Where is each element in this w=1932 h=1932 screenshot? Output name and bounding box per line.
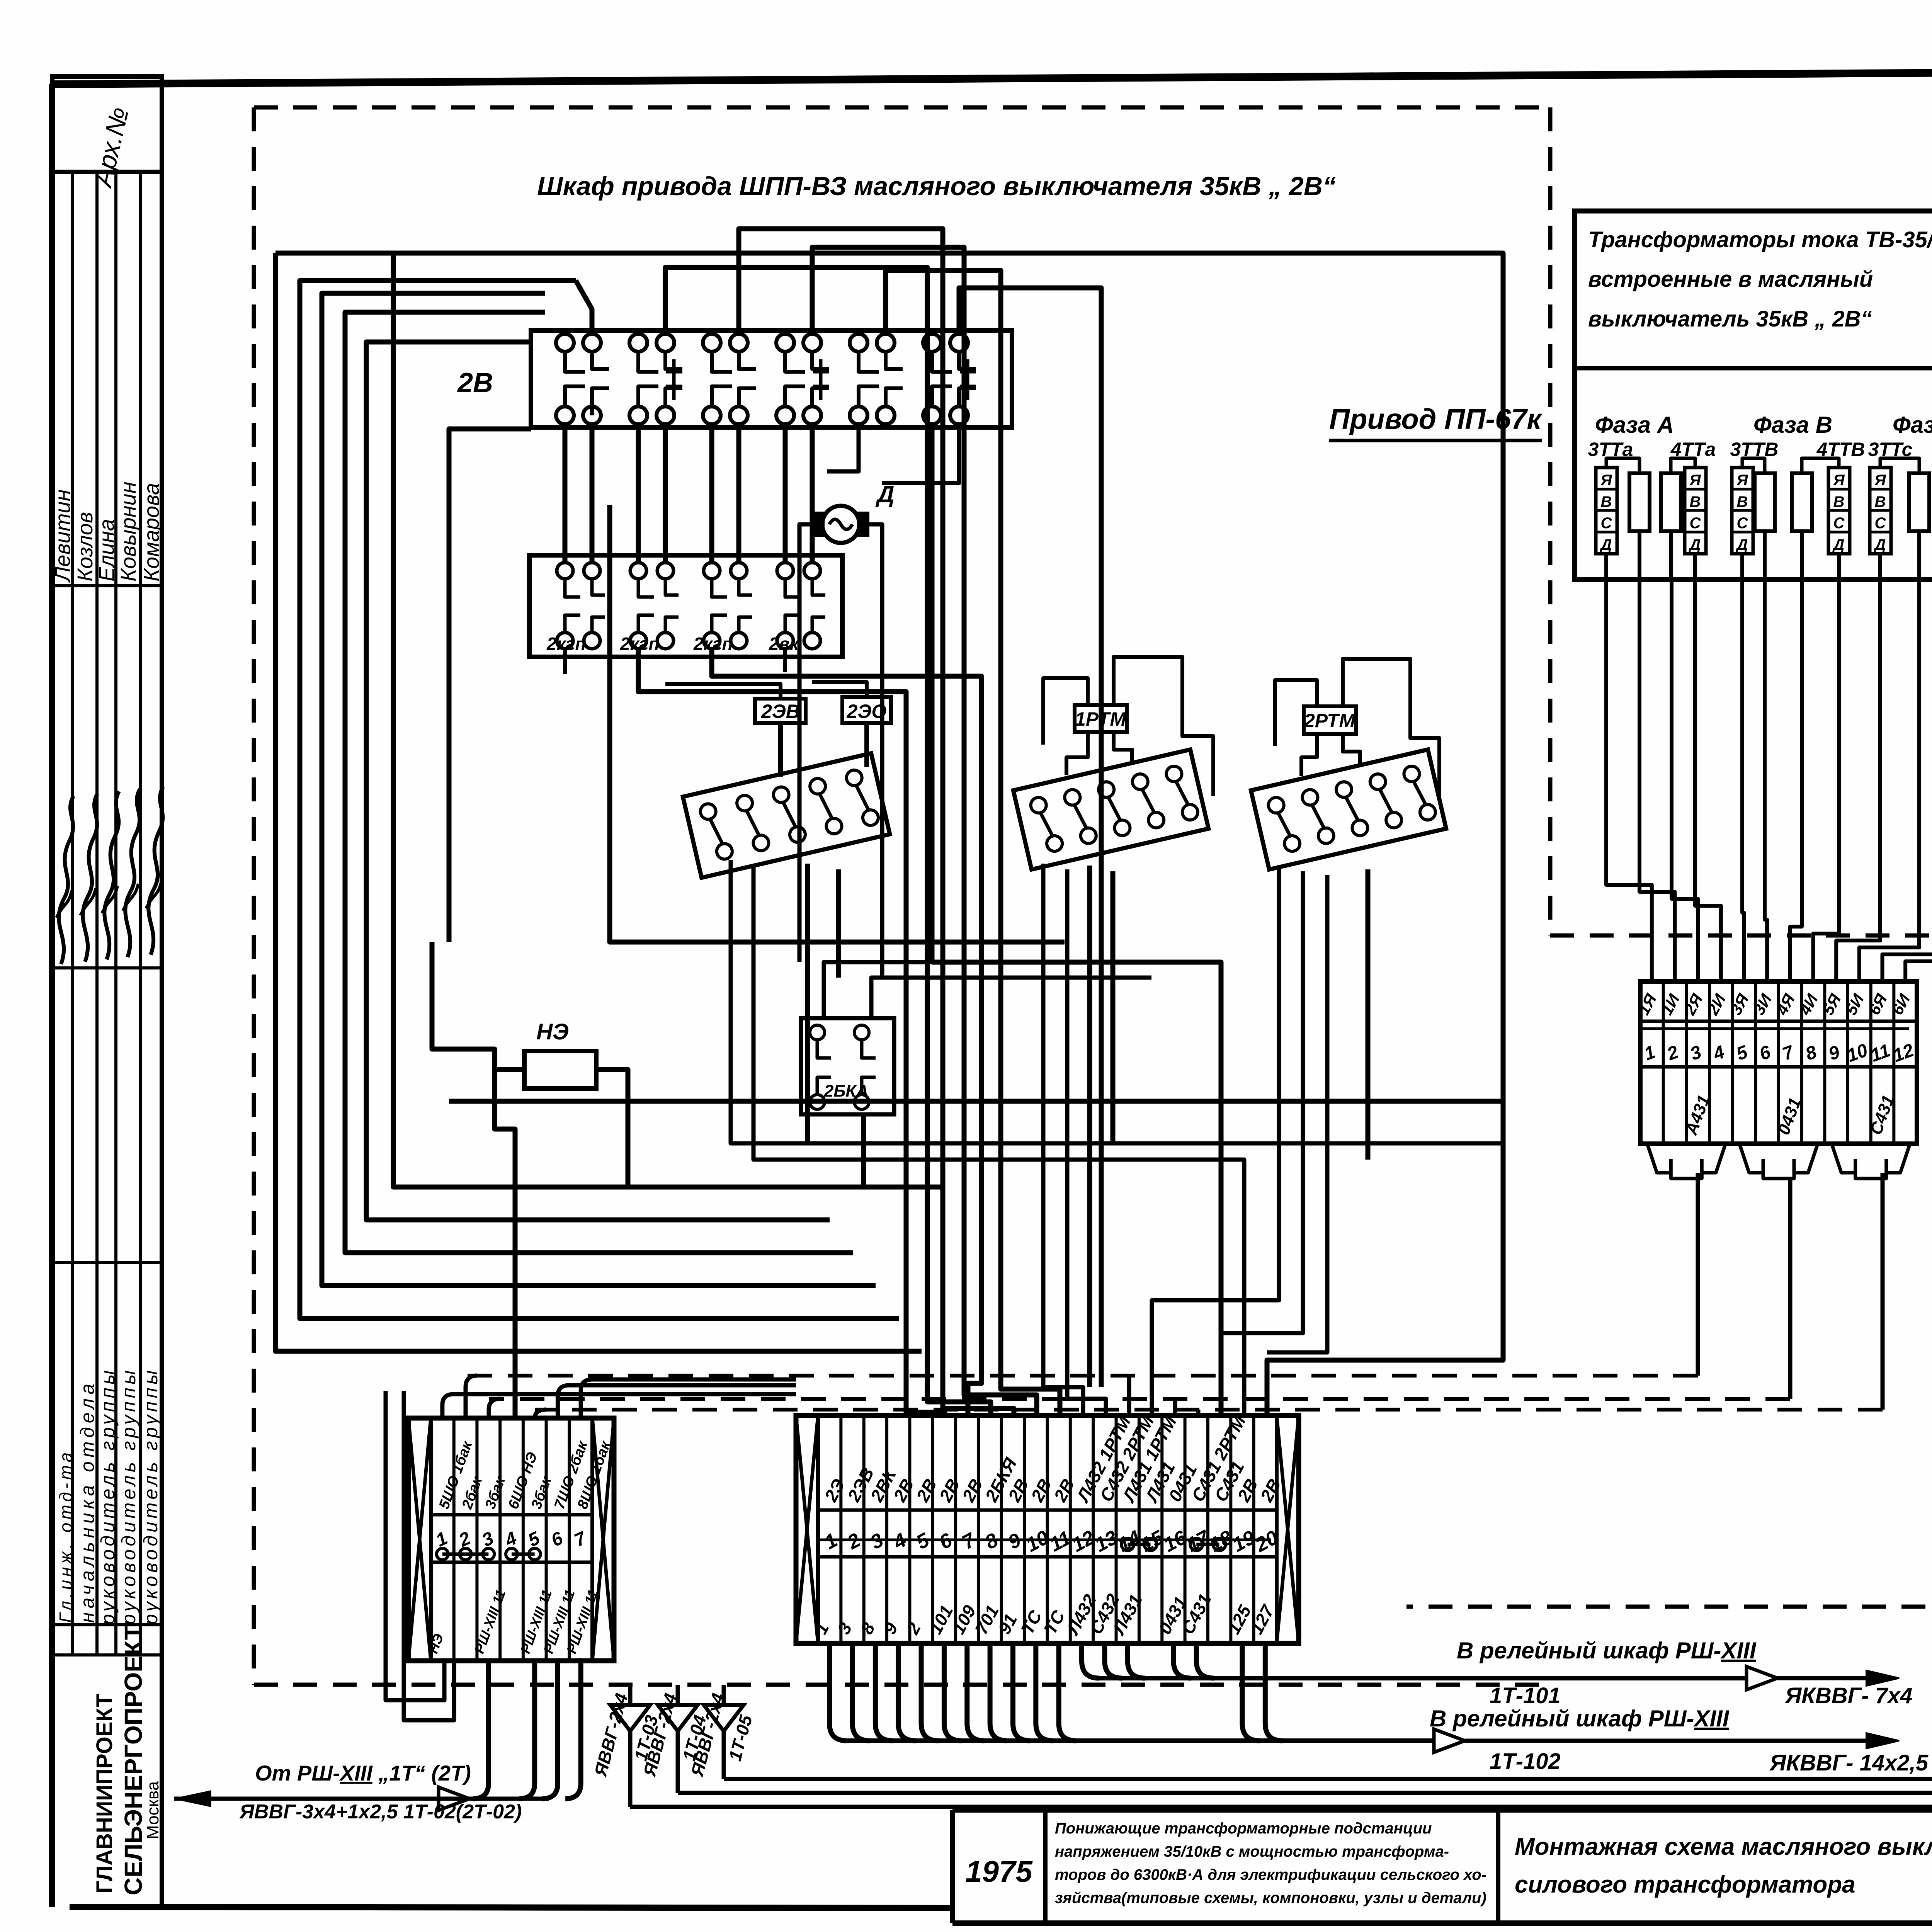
CT winding 4ТТВ xyxy=(1792,473,1812,531)
wire drop to motor xyxy=(827,424,859,471)
wire drive loop xyxy=(610,505,1065,942)
wire 2ЭВ to aux block xyxy=(778,723,783,777)
svg-text:Я: Я xyxy=(1600,472,1612,489)
svg-text:Д: Д xyxy=(1600,536,1612,553)
cable arrow В релейный шкаф РШ-XIII (1Т-101) xyxy=(1747,1667,1777,1690)
terminal 12 divider xyxy=(1069,1415,1072,1643)
svg-text:Я: Я xyxy=(1833,472,1845,489)
sheet outer frame xyxy=(49,84,55,1907)
column divider xyxy=(114,172,117,1655)
relay label 2РТМ xyxy=(1304,706,1356,734)
contact block 2В xyxy=(531,330,1012,427)
svg-text:силового трансформатора: силового трансформатора xyxy=(1515,1871,1855,1898)
wire to 2ЭВ xyxy=(665,684,781,699)
wire to col11 xyxy=(886,270,1060,1415)
left terminal 6 divider xyxy=(545,1418,548,1661)
wire drop to motor right xyxy=(882,424,959,483)
svg-text:Москва: Москва xyxy=(143,1781,162,1839)
wire CT winding drop xyxy=(1763,531,1767,580)
CT terminal strip 3ТТВ xyxy=(1732,468,1753,554)
wire loop 2РТМ right xyxy=(1343,659,1439,798)
wire 1РТМ extra xyxy=(1111,871,1116,1143)
contact pair 4 of 2В xyxy=(776,334,794,352)
wire motor left xyxy=(799,524,822,962)
wire CT 1 xyxy=(1606,580,1652,981)
column rule xyxy=(53,584,162,587)
svg-text:В релейный шкаф РШ-XIII: В релейный шкаф РШ-XIII xyxy=(1457,1638,1757,1663)
wire to col10 xyxy=(812,247,1037,1415)
wire 1РТМ to block xyxy=(1114,732,1132,763)
jumper 14-15 xyxy=(1121,1538,1134,1551)
wire drop xyxy=(563,424,568,563)
cable 1Т-101 line xyxy=(1097,1676,1747,1680)
wire CT bracket xyxy=(1606,458,1639,473)
wire А431 to col14 and left strip xyxy=(1696,1173,1700,1376)
svg-text:2В: 2В xyxy=(457,367,493,398)
svg-text:Д: Д xyxy=(1832,536,1845,553)
wire bundle xyxy=(366,342,830,1220)
terminal 6 divider xyxy=(931,1415,934,1643)
svg-text:В релейный шкаф РШ-XIII: В релейный шкаф РШ-XIII xyxy=(1430,1706,1730,1731)
wire loop 2РТМ left xyxy=(1275,680,1317,746)
cable tag 1Т-05 xyxy=(722,1731,726,1779)
wire НЭ left to left strip col4 xyxy=(495,1070,524,1418)
wire bundle outer to col5 xyxy=(276,253,922,1351)
wire drop xyxy=(709,424,714,563)
svg-text:1Т-102: 1Т-102 xyxy=(1490,1749,1561,1774)
wire НЭ loop inner xyxy=(404,1391,454,1720)
wire drop xyxy=(663,424,668,563)
wire to col18 xyxy=(932,962,1221,1415)
terminal 10 divider xyxy=(1023,1415,1026,1643)
svg-text:Д: Д xyxy=(1874,536,1886,553)
cable arrow В релейный шкаф РШ-XIII (1Т-102) xyxy=(1434,1729,1465,1752)
wire drop xyxy=(590,424,595,563)
CT terminal strip 4ТТа xyxy=(1685,468,1706,554)
terminal 16 divider xyxy=(1160,1415,1163,1643)
wire С431 to col17 and left strip xyxy=(1881,1173,1885,1410)
column rule xyxy=(53,966,162,969)
wire 1РТМ extra xyxy=(1087,866,1092,1387)
wire from 2В box corner down-left xyxy=(449,429,531,942)
terminal 13 divider xyxy=(1092,1415,1095,1643)
wire to 2ЭО xyxy=(812,682,867,697)
wire CT strip drop xyxy=(1693,554,1697,580)
left terminal 4 divider xyxy=(498,1418,502,1661)
CT winding 3ТТВ xyxy=(1755,473,1775,531)
block divider 2 xyxy=(1685,981,1688,1144)
CT winding 3ТТа xyxy=(1629,473,1650,531)
wire loop 1РТМ right xyxy=(1114,657,1213,796)
wire CT 4 xyxy=(1695,580,1721,981)
svg-text:торов до 6300кВ·А для электриф: торов до 6300кВ·А для электрификации сел… xyxy=(1055,1866,1486,1883)
terminal 8 divider xyxy=(977,1415,980,1643)
contact block 2БКА xyxy=(801,1018,894,1114)
terminal 9 divider xyxy=(1000,1415,1003,1643)
terminal 11 divider xyxy=(1046,1415,1049,1643)
contact pair 3 of 2КГП xyxy=(704,563,720,579)
wire 2БКА top right xyxy=(871,978,1151,1018)
block divider 10 xyxy=(1869,981,1872,1144)
wire drop long xyxy=(930,424,935,962)
CT terminal strip 3ТТа xyxy=(1596,468,1617,554)
wire CT winding drop xyxy=(1917,531,1921,580)
svg-text:руководитель группы: руководитель группы xyxy=(97,1367,119,1626)
motor Д xyxy=(822,506,859,543)
cable От РШ-XIII line xyxy=(174,1797,549,1801)
contact block 2КГП xyxy=(529,555,842,657)
stub xyxy=(563,649,567,674)
column divider xyxy=(95,172,99,1655)
svg-text:2ЭВ: 2ЭВ xyxy=(761,701,800,722)
svg-text:2РТМ: 2РТМ xyxy=(1304,710,1355,731)
svg-text:Фаза С: Фаза С xyxy=(1893,412,1932,438)
wire blockA to bus xyxy=(731,860,1503,1143)
CT winding 4ТТа xyxy=(1661,473,1681,531)
strip end X left xyxy=(408,1418,431,1661)
svg-text:Фаза А: Фаза А xyxy=(1595,412,1674,438)
svg-text:Д: Д xyxy=(1689,536,1701,553)
wire CT bracket xyxy=(1880,458,1919,473)
wire 2РТМ feeder xyxy=(1221,871,1303,1333)
wire CT 11 xyxy=(1883,580,1932,981)
terminal 7 divider xyxy=(954,1415,957,1643)
terminal 15 divider xyxy=(1138,1415,1141,1643)
wire diagonal into 2В contact xyxy=(576,281,592,334)
block divider 9 xyxy=(1846,981,1849,1144)
terminal 3 divider xyxy=(862,1415,866,1643)
svg-text:В: В xyxy=(1601,493,1612,510)
contact pair 2 of 2КГП xyxy=(630,563,646,579)
wire to col6 xyxy=(638,649,945,1415)
central terminal strip xyxy=(796,1415,1299,1643)
svg-text:В: В xyxy=(1833,493,1845,510)
wire CT 6 xyxy=(1765,580,1767,981)
strip end X left xyxy=(796,1415,818,1643)
svg-text:С: С xyxy=(1875,515,1886,532)
svg-text:Я: Я xyxy=(1736,472,1748,489)
block divider 8 xyxy=(1823,981,1826,1144)
CT winding 3ТТс xyxy=(1909,473,1929,531)
svg-text:С: С xyxy=(1737,515,1748,532)
wires from left strip top xyxy=(442,1394,796,1418)
contact pair 2 of 2В xyxy=(629,334,647,352)
wire blockA extra xyxy=(805,864,810,1144)
wire CT bracket xyxy=(1742,458,1765,473)
wire 2РТМ to block xyxy=(1301,734,1317,776)
svg-text:Фаза В: Фаза В xyxy=(1753,412,1832,438)
svg-text:Д: Д xyxy=(1736,536,1748,553)
svg-text:В: В xyxy=(1690,493,1701,510)
CT terminal strip 3ТТс xyxy=(1870,468,1891,554)
svg-text:В: В xyxy=(1737,493,1748,510)
dashed enclosure: drive cabinet xyxy=(254,105,1550,110)
wire CT 8 xyxy=(1813,580,1839,981)
svg-text:Я: Я xyxy=(1689,472,1701,489)
column rule xyxy=(53,1623,162,1626)
terminal 14 divider xyxy=(1115,1415,1118,1643)
wire blockA extra xyxy=(836,869,841,978)
left terminal 2 divider xyxy=(452,1418,456,1661)
column divider xyxy=(71,172,74,1655)
wire 2БКА top left xyxy=(824,962,1121,1018)
relay label 1РТМ xyxy=(1075,705,1127,732)
jumper 17-18 xyxy=(1190,1538,1202,1551)
wires from left strip to От РШ-XIII cable xyxy=(473,1661,488,1799)
svg-text:руководитель группы: руководитель группы xyxy=(118,1367,139,1626)
svg-text:зяйства(типовые схемы, компоно: зяйства(типовые схемы, компоновки, узлы … xyxy=(1055,1889,1486,1906)
svg-text:От РШ-XIII „1Т“ (2Т): От РШ-XIII „1Т“ (2Т) xyxy=(255,1761,471,1785)
wire 2РТМ extra xyxy=(1366,869,1371,1160)
wires from central strip to cable 1Т-102 xyxy=(830,1643,847,1741)
left terminal strip xyxy=(408,1418,614,1661)
wire CT 7 xyxy=(1790,580,1802,981)
svg-text:С: С xyxy=(1833,515,1845,532)
current transformers box xyxy=(1575,211,1932,580)
wire CT 2 xyxy=(1639,580,1675,981)
terminal 2 divider xyxy=(839,1415,842,1643)
svg-text:Монтажная схема масляного вы: Монтажная схема масляного выключателя 35… xyxy=(1515,1833,1932,1860)
wire outer loop to col20 xyxy=(276,253,1503,1415)
wire 1РТМ to col13 xyxy=(1067,869,1106,1415)
cable 1Т-03 run xyxy=(630,510,1932,1807)
svg-text:выключатель 35кВ „ 2В“: выключатель 35кВ „ 2В“ xyxy=(1588,306,1872,332)
cable 1Т-04 run xyxy=(678,510,1932,1793)
dashed enclosure: oil breaker CT compartment xyxy=(1550,934,1932,938)
wire НЭ right down xyxy=(596,1070,628,1187)
strip end X right xyxy=(1277,1415,1299,1643)
left terminal 1 divider xyxy=(429,1418,432,1661)
wire CT winding drop xyxy=(1800,531,1804,580)
svg-text:Понижающие трансформаторные по: Понижающие трансформаторные подстанции xyxy=(1055,1820,1432,1837)
wire 2РТМ to block xyxy=(1343,734,1360,764)
wire to col7 xyxy=(712,649,981,1415)
wire CT strip drop xyxy=(1878,554,1882,580)
terminal 18 divider xyxy=(1206,1415,1209,1643)
title block xyxy=(952,1807,1932,1813)
block divider 11 xyxy=(1892,981,1895,1144)
svg-text:Гл.инж. отд-та: Гл.инж. отд-та xyxy=(56,1449,76,1623)
stub xyxy=(590,406,594,415)
svg-text:1975: 1975 xyxy=(965,1854,1033,1888)
wire CT bracket xyxy=(1671,458,1695,473)
wire 2РТМ feeder xyxy=(1267,875,1327,1352)
block divider 7 xyxy=(1800,981,1803,1144)
left terminal 5 divider xyxy=(522,1418,525,1661)
wire to col12 bus xyxy=(959,288,1101,1387)
terminal 4 divider xyxy=(885,1415,888,1643)
aux switch block of drive (2ЭВ/2ЭО) xyxy=(683,753,890,878)
wire CT bracket xyxy=(1802,458,1839,473)
contact pair 5 of 2В xyxy=(850,334,867,352)
terminal 19 divider xyxy=(1229,1415,1232,1643)
terminal 20 divider xyxy=(1252,1415,1255,1643)
wire CT 5 xyxy=(1742,580,1744,981)
wire bundle xyxy=(345,312,853,1253)
svg-text:начальника отдела: начальника отдела xyxy=(77,1380,98,1623)
contact pair 1 of 2КГП xyxy=(557,563,573,579)
block divider 5 xyxy=(1754,981,1757,1144)
wire loop 1РТМ left xyxy=(1043,678,1088,745)
terminal 17 divider xyxy=(1184,1415,1187,1643)
contact pair 1 of 2В xyxy=(556,334,574,352)
svg-text:напряжением 35/10кВ с мощность: напряжением 35/10кВ с мощностью трансфор… xyxy=(1055,1843,1449,1860)
block divider 4 xyxy=(1731,981,1734,1144)
coil label 2ЭВ xyxy=(755,699,806,723)
column rule xyxy=(53,1653,162,1656)
wire 1РТМ to block xyxy=(1066,732,1088,775)
wire bundle xyxy=(300,281,899,1318)
cable tag 1Т-03 xyxy=(628,1731,633,1807)
svg-text:ГЛАВНИИПРОЕКТ: ГЛАВНИИПРОЕКТ xyxy=(92,1694,117,1893)
column rule xyxy=(53,1261,162,1264)
wire drop xyxy=(810,424,815,563)
wire 2БКА bottom xyxy=(861,1114,866,1187)
contact pair 3 of 2В xyxy=(703,334,721,352)
svg-text:ЯВВГ-3х4+1х2,5 1Т-02(2Т-02): ЯВВГ-3х4+1х2,5 1Т-02(2Т-02) xyxy=(239,1801,522,1823)
wire CT strip drop xyxy=(1837,554,1841,580)
wire 2РТМ to col15 xyxy=(1152,866,1279,1415)
svg-text:Шкаф привода ШПП-ВЗ масляно: Шкаф привода ШПП-ВЗ масляного выключател… xyxy=(537,172,1336,201)
left terminal 7 divider xyxy=(568,1418,571,1661)
svg-text:Елина: Елина xyxy=(94,519,119,582)
strip end X right xyxy=(592,1418,614,1661)
aux switch block 1РТМ xyxy=(1013,750,1208,869)
wire CT 9 xyxy=(1836,580,1880,981)
wire CT 10 xyxy=(1859,580,1919,981)
coil label 2ЭО xyxy=(842,697,891,723)
block divider 3 xyxy=(1708,981,1711,1144)
wire bus 2850 xyxy=(449,1099,1503,1104)
block connector claws xyxy=(1647,1144,1671,1173)
wire 0431 to col16 and left strip xyxy=(1788,1179,1793,1399)
wire drop xyxy=(636,424,641,563)
wire long vertical to col6 xyxy=(393,253,945,1187)
svg-text:руководитель группы: руководитель группы xyxy=(140,1367,162,1626)
terminal 5 divider xyxy=(908,1415,911,1643)
CT terminal block xyxy=(1640,981,1917,1144)
wire blockA to col19 xyxy=(753,866,1244,1415)
signatures xyxy=(59,796,73,964)
wire 2ЭО to aux block xyxy=(864,723,869,767)
wire CT 12 xyxy=(1905,580,1932,981)
terminal 1 divider xyxy=(816,1415,820,1643)
block divider 6 xyxy=(1777,981,1780,1144)
aux switch block 2РТМ xyxy=(1251,750,1446,869)
stub xyxy=(783,649,787,672)
svg-text:Ковырнин: Ковырнин xyxy=(116,481,140,582)
svg-text:Привод ПП-67к: Привод ПП-67к xyxy=(1329,403,1543,435)
svg-text:НЭ: НЭ xyxy=(536,1019,569,1044)
box Арх.№ xyxy=(52,77,162,172)
column divider xyxy=(139,172,142,1655)
wire to col8 xyxy=(665,267,991,1415)
svg-text:ЯКВВГ- 14х2,5: ЯКВВГ- 14х2,5 xyxy=(1769,1750,1929,1776)
wire motor right xyxy=(867,524,882,978)
svg-text:ЯКВВГ- 7х4: ЯКВВГ- 7х4 xyxy=(1784,1683,1913,1708)
wire to НЭ from loop xyxy=(432,942,495,1070)
svg-text:встроенные в масляный: встроенные в масляный xyxy=(1588,267,1873,292)
wire НЭ loop outer xyxy=(386,1391,444,1700)
wire bundle xyxy=(322,293,876,1286)
cable 1Т-05 run xyxy=(724,510,1932,1779)
contact pair 6 of 2В xyxy=(923,334,941,352)
svg-text:СЕЛЬЭНЕРГОПРОЕКТ: СЕЛЬЭНЕРГОПРОЕКТ xyxy=(119,1625,147,1895)
wire CT winding drop xyxy=(1669,531,1673,580)
resistor НЭ xyxy=(524,1051,596,1088)
svg-text:С: С xyxy=(1690,515,1701,532)
svg-text:2БКА: 2БКА xyxy=(824,1082,868,1100)
svg-text:Козлов: Козлов xyxy=(73,512,97,582)
block divider 1 xyxy=(1662,981,1665,1144)
svg-text:В: В xyxy=(1875,493,1886,510)
column rule xyxy=(53,170,162,173)
svg-text:Я: Я xyxy=(1874,472,1886,489)
left title column xyxy=(160,77,164,1907)
wire CT strip drop xyxy=(1604,554,1608,580)
wires from central strip to cable 1Т-101 xyxy=(1082,1643,1099,1678)
svg-text:Комарова: Комарова xyxy=(139,483,163,582)
wire drop xyxy=(736,424,742,563)
svg-text:С: С xyxy=(1601,515,1612,532)
cable 1Т-102 line xyxy=(847,1738,1434,1743)
wire drop xyxy=(783,424,788,563)
svg-text:Трансформаторы тока ТВ-35/10,: Трансформаторы тока ТВ-35/10, xyxy=(1588,227,1932,252)
contact pair 4 of 2КГП xyxy=(777,563,793,579)
cable tag 1Т-04 xyxy=(676,1731,680,1793)
svg-text:Левитин: Левитин xyxy=(50,489,75,583)
jumpers left strip xyxy=(437,1548,448,1560)
CT terminal strip 4ТТВ xyxy=(1828,468,1850,554)
left terminal 3 divider xyxy=(475,1418,478,1661)
wire CT winding drop xyxy=(1638,531,1641,580)
svg-text:1Т-101: 1Т-101 xyxy=(1490,1683,1561,1708)
wire CT 3 xyxy=(1672,580,1698,981)
wire 1РТМ to col12 xyxy=(1043,864,1083,1415)
wire CT strip drop xyxy=(1740,554,1744,580)
wire to col9 xyxy=(739,229,1014,1415)
